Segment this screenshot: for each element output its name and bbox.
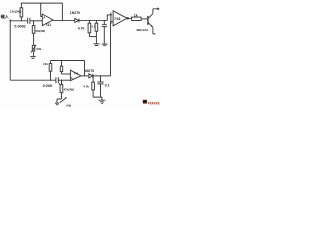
svg-text:50k: 50k (36, 47, 41, 51)
label A2 (71, 76, 74, 80)
svg-text:4.7k: 4.7k (83, 85, 89, 89)
op-amp A2 741 (70, 70, 81, 80)
value label 12k(3W) (10, 10, 22, 14)
svg-text:0.1: 0.1 (92, 24, 96, 28)
svg-text:741: 741 (74, 71, 79, 75)
junction R3 top (89, 20, 90, 21)
wire A2 feedback drop (84, 61, 86, 76)
svg-text:1N270: 1N270 (70, 11, 80, 15)
ground G5 (55, 103, 59, 105)
wire A3 output (129, 17, 132, 19)
wire feedback top (21, 3, 62, 20)
value label 0.008 (43, 84, 52, 88)
resistor R8 4.7k (92, 76, 95, 97)
node IN input label (1, 13, 10, 19)
watermark logo (143, 100, 147, 104)
value label 1N270 top (70, 11, 80, 15)
resistor R7 (60, 61, 62, 75)
svg-text:741: 741 (114, 16, 121, 21)
value label 1k (134, 13, 138, 17)
wire A2 inverting input (62, 73, 71, 75)
svg-text:12k(3W): 12k(3W) (10, 10, 22, 14)
diode D2 1N270 (75, 18, 79, 22)
wire inverting input drop (41, 3, 43, 16)
wire detector to A3 lower input (111, 22, 114, 76)
ground G3 (102, 44, 108, 46)
wire R5 to base (141, 18, 148, 20)
op-amp A1 741 (42, 14, 53, 26)
capacitor C3 0.008 series (56, 77, 58, 83)
resistor R6 12k (49, 61, 52, 81)
label 741 A2 (74, 71, 79, 75)
resistor R9 47k(3W) (60, 80, 63, 99)
resistor R3 4.7k (88, 20, 91, 36)
wire A1 output (53, 19, 108, 21)
label 741 A3 (114, 16, 121, 21)
wire bottom rail left (10, 79, 56, 81)
resistor R2 47k(2W) (32, 21, 35, 46)
wire input to C1 (10, 20, 28, 22)
value label 0.0082 (14, 24, 25, 28)
junction A2 feedback (84, 75, 85, 76)
resistor R1 bias (20, 3, 23, 21)
svg-text:50k: 50k (66, 104, 71, 108)
wire C1 to A1 input (30, 20, 42, 22)
ground G1 (30, 57, 35, 59)
svg-text:47k(2W): 47k(2W) (35, 29, 45, 33)
value label 47k(2W) (35, 29, 45, 33)
junction R4 top (96, 20, 97, 21)
potentiometer RP1 50k (31, 45, 36, 57)
value label 0.1 mid (92, 24, 96, 28)
svg-text:0.008: 0.008 (43, 84, 52, 88)
input terminal (10, 19, 12, 21)
A3 output bubble (127, 18, 129, 20)
junction R8 top (93, 75, 94, 76)
svg-text:1k: 1k (134, 13, 138, 17)
wire step up to A3 (107, 15, 112, 21)
value label 4.7k(1W) (78, 27, 85, 31)
wire A2 top feedback (51, 60, 85, 62)
svg-text:4.7k: 4.7k (78, 27, 85, 31)
watermark text (148, 102, 159, 105)
junction rail 12k (50, 80, 51, 81)
svg-text:47k(3W): 47k(3W) (64, 87, 74, 91)
junction rail 47k (61, 80, 62, 81)
collector terminal (157, 8, 159, 10)
capacitor C2 (102, 20, 107, 43)
transistor Q1 3DG12A (148, 9, 158, 34)
value label 0.1 rail (59, 82, 63, 86)
wire diode to A3 (93, 75, 111, 77)
svg-text:0.0082: 0.0082 (14, 24, 25, 28)
ground G2 (93, 44, 99, 46)
resistor R4 0.1 (95, 20, 98, 36)
junction C4 top (100, 75, 101, 76)
svg-text:3DG12A: 3DG12A (136, 28, 149, 32)
wire left rail (9, 21, 11, 80)
value label 4.7k (83, 85, 89, 89)
junction C2 top (104, 20, 105, 21)
wire A2 output (81, 75, 89, 77)
value label 47k(3W) (64, 87, 74, 91)
op-amp A3 741 (113, 11, 127, 26)
junction R1 top (21, 3, 22, 4)
value label 50k (36, 47, 41, 51)
wire bottom rail right (58, 79, 71, 81)
capacitor C4 0.1 (97, 76, 103, 97)
junction input node (21, 20, 22, 21)
junction feedback tap (62, 20, 63, 21)
capacitor C1 0.0082 (28, 18, 30, 24)
op-amp A3 input bar (110, 13, 112, 25)
ground G4 (99, 100, 106, 103)
value label 1N270 (84, 69, 94, 73)
svg-text:1N270: 1N270 (84, 69, 94, 73)
resistor R5 1k (132, 17, 142, 20)
value label 12k (43, 62, 48, 66)
label A1 (43, 15, 46, 19)
value label 0.1 det (105, 83, 110, 87)
svg-text:输入: 输入 (1, 13, 10, 19)
junction divider tap (33, 20, 34, 21)
svg-text:741: 741 (46, 23, 52, 27)
potentiometer RP2 50k (57, 97, 67, 103)
svg-text:12k: 12k (43, 62, 48, 66)
value label 50k (66, 104, 71, 108)
value label 3DG12A (136, 28, 149, 32)
wire R3 R4 common (89, 37, 96, 44)
wire detector ground join (93, 97, 102, 100)
label 741 A1 (46, 23, 52, 27)
diode D1 1N270 (89, 74, 93, 78)
svg-text:0.1: 0.1 (105, 83, 110, 87)
